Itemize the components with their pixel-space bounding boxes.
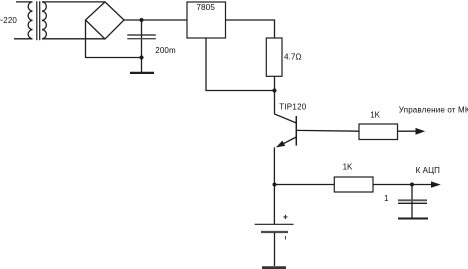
wire regulator ground pin to node [206, 38, 275, 91]
wire emitter down to battery [273, 147, 275, 224]
wire bridge negative output down [86, 20, 142, 58]
capacitor C1 lead [141, 20, 143, 72]
wire base to resistor R2 [296, 129, 359, 132]
capacitor C2 bottom plate [398, 202, 427, 204]
transistor Q1 base bar [295, 116, 297, 146]
svg-text:4.7Ω: 4.7Ω [284, 53, 302, 62]
node ADC junction [410, 183, 414, 187]
capacitor C2 lead [411, 185, 413, 218]
svg-text:1K: 1K [370, 110, 380, 119]
resistor R2 1K body [359, 124, 398, 140]
node positive rail junction [140, 18, 144, 22]
capacitor C1 top plate [127, 34, 156, 36]
wire battery to ground [274, 233, 276, 266]
svg-text:1K: 1K [343, 163, 353, 172]
node negative rail junction [140, 56, 144, 60]
svg-text:200m: 200m [155, 46, 176, 55]
node emitter junction [273, 183, 277, 187]
svg-text:К АЦП: К АЦП [416, 166, 441, 175]
svg-text:TIP120: TIP120 [279, 103, 307, 112]
wire resistor R1 bottom lead [274, 76, 276, 90]
ground [262, 266, 286, 269]
svg-text:Управление от МК: Управление от МК [399, 106, 468, 115]
battery B1 negative plate [261, 231, 288, 233]
resistor R3 1K body [334, 177, 373, 192]
wire regulator output to resistor [226, 20, 275, 38]
svg-text:7805: 7805 [196, 2, 215, 12]
svg-text:+: + [283, 212, 288, 222]
ground [130, 72, 154, 74]
capacitor C2 top plate [398, 199, 427, 201]
wire resistor R2 to MCU arrow [398, 130, 417, 132]
svg-text:~220: ~220 [0, 16, 17, 25]
transformer T1 primary winding [14, 2, 33, 39]
wire emitter node to resistor R3 [275, 184, 335, 186]
svg-text:1: 1 [384, 194, 389, 203]
transformer T1 secondary winding [42, 2, 105, 39]
ground [398, 218, 428, 220]
node collector junction [273, 89, 277, 93]
regulator U1 7805 body [187, 2, 226, 38]
resistor R1 4.7 ohm body [266, 38, 282, 76]
transformer T1 core [36, 1, 38, 40]
battery B1 positive plate [255, 223, 294, 225]
transistor Q1 emitter lead with arrow [278, 137, 297, 147]
transistor Q1 collector lead [275, 91, 297, 124]
wire bridge positive output to regulator [124, 19, 187, 21]
capacitor C1 bottom plate [127, 38, 156, 40]
bridge rectifier D1 [86, 2, 125, 39]
battery minus tick [285, 236, 287, 240]
wire resistor R3 to ADC arrow [373, 184, 432, 186]
